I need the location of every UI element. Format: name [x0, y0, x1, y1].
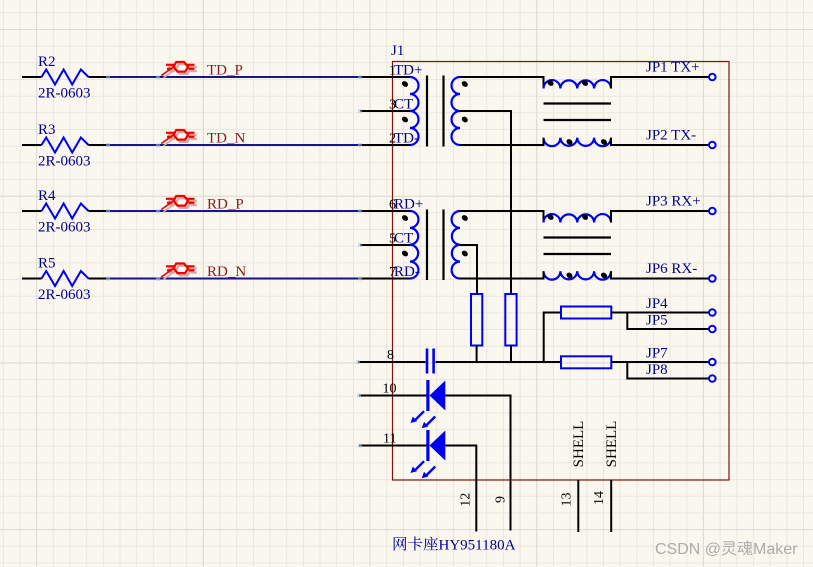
pin JP7 terminal — [646, 346, 716, 366]
pin 13 SHELL — [559, 421, 587, 532]
wire up to JP4 resistor — [544, 313, 561, 363]
pin 5 CT — [360, 231, 413, 247]
svg-text:11: 11 — [383, 432, 396, 447]
pin JP8 terminal — [646, 362, 716, 382]
polarity dot — [461, 249, 469, 257]
pin JP4 terminal — [646, 296, 716, 316]
resistor JP4/JP5 — [561, 307, 611, 319]
svg-text:RD-: RD- — [394, 264, 420, 280]
svg-text:9: 9 — [494, 496, 509, 503]
polarity dot — [600, 271, 608, 279]
transformer RX secondary winding — [452, 211, 460, 279]
svg-text:R4: R4 — [38, 188, 56, 204]
svg-text:13: 13 — [559, 493, 574, 507]
svg-text:JP2 TX-: JP2 TX- — [646, 128, 696, 144]
polarity dot — [401, 115, 409, 123]
differential pair directive RD_N — [161, 264, 197, 280]
wire resistor B to pin8 net — [510, 346, 512, 363]
svg-text:R2: R2 — [38, 54, 56, 70]
polarity dot — [546, 213, 554, 221]
wire secondary bottom to choke — [460, 271, 544, 278]
wire pin11 to pin12 column — [445, 446, 476, 532]
pin JP6 RX- terminal — [646, 261, 716, 282]
resistor R5 2R-0603 — [22, 256, 108, 304]
differential pair directive TD_N — [161, 130, 197, 146]
wire secondary bottom to choke — [460, 138, 544, 145]
svg-text:8: 8 — [387, 348, 394, 363]
resistor RX center tap — [471, 294, 482, 346]
svg-text:2R-0603: 2R-0603 — [38, 287, 91, 303]
polarity dot — [581, 79, 589, 87]
wire pin8 net — [436, 361, 562, 363]
wire JP5 branch — [627, 313, 709, 330]
wire net RD_P — [108, 210, 360, 212]
polarity dot — [401, 80, 409, 88]
pin 7 RD- — [360, 264, 420, 280]
pin 1 TD+ — [360, 63, 422, 79]
svg-text:Maker: Maker — [753, 541, 798, 558]
resistor TX center tap — [505, 294, 516, 346]
junction ticks — [106, 75, 362, 448]
transformer RX core — [427, 210, 444, 281]
wire JP8 branch — [627, 362, 709, 379]
wire net TD_P — [108, 76, 360, 78]
wire net RD_N — [108, 278, 360, 280]
transformer TX primary winding — [410, 77, 419, 145]
wire choke bottom riser — [611, 271, 709, 278]
svg-text:10: 10 — [383, 382, 397, 397]
polarity dot — [581, 213, 589, 221]
svg-text:TD+: TD+ — [394, 63, 422, 79]
svg-text:12: 12 — [459, 493, 474, 507]
polarity dot — [401, 249, 409, 257]
svg-text:JP1 TX+: JP1 TX+ — [646, 60, 700, 76]
svg-text:CSDN @: CSDN @ — [655, 541, 721, 558]
wire secondary top to choke — [460, 211, 544, 223]
watermark CSDN @灵魂Maker — [655, 541, 798, 558]
pin JP3 RX+ terminal — [646, 194, 716, 215]
wire net TD_N — [108, 144, 360, 146]
wire choke top riser — [611, 77, 709, 89]
polarity dot — [565, 271, 573, 279]
pin 3 CT — [360, 97, 413, 113]
resistor R3 2R-0603 — [22, 122, 108, 170]
pin 14 SHELL — [592, 421, 620, 532]
svg-text:TD_P: TD_P — [207, 63, 243, 79]
resistor R4 2R-0603 — [22, 188, 108, 236]
svg-text:RD+: RD+ — [394, 197, 423, 213]
capacitor on pin 8 — [427, 349, 434, 374]
polarity dot — [461, 80, 469, 88]
common-mode choke RX top winding — [544, 214, 612, 222]
resistor R2 2R-0603 — [22, 54, 108, 102]
differential pair directive RD_P — [161, 196, 197, 212]
svg-text:JP5: JP5 — [646, 313, 668, 329]
polarity dot — [546, 79, 554, 87]
pin 8 — [358, 348, 426, 363]
common-mode choke TX core — [544, 104, 612, 121]
svg-text:JP4: JP4 — [646, 296, 668, 312]
svg-text:2R-0603: 2R-0603 — [38, 86, 91, 102]
svg-text:TD_N: TD_N — [207, 131, 245, 147]
LED on pin 11 — [359, 430, 445, 478]
pin 6 RD+ — [360, 197, 423, 213]
wire choke bottom riser — [611, 138, 709, 145]
svg-text:JP8: JP8 — [646, 362, 668, 378]
svg-text:R5: R5 — [38, 256, 56, 272]
svg-text:SHELL: SHELL — [604, 421, 620, 468]
common-mode choke RX bottom winding — [544, 271, 612, 279]
polarity dot — [461, 214, 469, 222]
comment 网卡座HY951180A — [394, 536, 516, 553]
svg-text:JP7: JP7 — [646, 346, 668, 362]
common-mode choke TX top winding — [544, 80, 612, 88]
polarity dot — [461, 115, 469, 123]
polarity dot — [401, 214, 409, 222]
common-mode choke RX core — [544, 238, 612, 255]
wire pin10 to pin9 column — [445, 396, 510, 531]
polarity dot — [600, 138, 608, 146]
transformer TX core — [427, 76, 444, 147]
svg-text:2R-0603: 2R-0603 — [38, 154, 91, 170]
connector J1 body outline — [393, 62, 730, 481]
wire TX center tap down — [460, 111, 511, 294]
wire resistor A to pin8 net — [476, 346, 478, 363]
pin JP2 TX- terminal — [646, 128, 716, 149]
differential pair directive TD_P — [161, 62, 197, 78]
LED on pin 10 — [359, 380, 445, 428]
transformer TX secondary winding — [452, 77, 460, 145]
wire RX center tap down — [460, 245, 477, 294]
svg-text:JP3 RX+: JP3 RX+ — [646, 194, 701, 210]
svg-text:J1: J1 — [391, 43, 404, 59]
resistor JP7/JP8 — [561, 356, 611, 368]
svg-text:JP6 RX-: JP6 RX- — [646, 261, 697, 277]
wire choke top riser — [611, 211, 709, 223]
pin 2 TD- — [360, 131, 419, 147]
svg-text:RD_P: RD_P — [207, 197, 244, 213]
svg-text:14: 14 — [592, 491, 607, 505]
transformer RX primary winding — [410, 211, 418, 279]
wire JP7 — [611, 361, 709, 363]
svg-text:RD_N: RD_N — [207, 264, 246, 280]
wire JP4 — [611, 312, 709, 314]
svg-text:R3: R3 — [38, 122, 56, 138]
svg-text:HY951180A: HY951180A — [439, 538, 516, 554]
wire secondary top to choke — [460, 77, 544, 89]
svg-text:2R-0603: 2R-0603 — [38, 220, 91, 236]
pin JP5 terminal — [646, 313, 716, 333]
pin JP1 TX+ terminal — [646, 60, 716, 81]
svg-text:SHELL: SHELL — [571, 421, 587, 468]
common-mode choke TX bottom winding — [544, 138, 612, 146]
polarity dot — [565, 138, 573, 146]
